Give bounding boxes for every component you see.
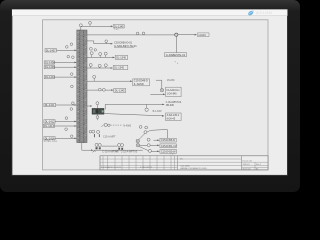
wire W1 <box>81 25 112 27</box>
arrow wire B <box>162 115 165 117</box>
label box R2 two-line <box>166 113 182 121</box>
svg-text:BERSE C15 MBS/C15 1345: BERSE C15 MBS/C15 1345 <box>181 168 208 170</box>
wire L4 <box>55 76 76 78</box>
diagonal wire down <box>139 147 158 152</box>
busbar bottom drop wire <box>82 143 92 151</box>
wire L5 <box>56 104 75 106</box>
svg-text:B-1-DAT: B-1-DAT <box>153 110 163 113</box>
svg-text:Sheet 1/2: Sheet 1/2 <box>243 167 251 170</box>
arrow W2 <box>195 34 197 36</box>
wire busbar to K1 <box>87 105 91 107</box>
left label L7 <box>43 124 54 128</box>
title block small texts <box>101 158 261 171</box>
balloon a on W2 <box>136 32 139 35</box>
cluster junction X3 <box>136 144 139 147</box>
drop wire from node J1 <box>175 36 177 52</box>
wire W4 <box>87 56 113 58</box>
svg-text:DL-1411: DL-1411 <box>45 103 55 107</box>
wire W2 continuation <box>178 34 196 36</box>
arrow L4 <box>74 76 76 78</box>
wire L1 <box>57 49 76 51</box>
balloons on W5 <box>89 64 107 69</box>
title block <box>100 156 268 170</box>
svg-text:JB-DD: JB-DD <box>166 104 174 107</box>
net label box W5 <box>113 65 128 69</box>
wire A from relay <box>105 104 163 109</box>
svg-text:IL-SAND: IL-SAND <box>134 83 144 86</box>
wire L3 <box>55 66 75 68</box>
svg-text:C15-D451-I-D: C15-D451-I-D <box>161 145 177 148</box>
svg-text:DL-1345: DL-1345 <box>114 66 124 70</box>
wire L6 <box>55 120 75 122</box>
arrow M1 <box>157 139 159 141</box>
arrow W3 <box>111 43 113 45</box>
svg-text:1345-LS: 1345-LS <box>243 164 251 166</box>
mid circle on wire M2 <box>147 144 150 147</box>
tablet bezel <box>0 0 300 192</box>
node J1 <box>175 33 178 36</box>
terminal circle T1 <box>90 47 93 50</box>
arrow W4 <box>113 57 115 59</box>
svg-text:1N-DM: 1N-DM <box>167 79 175 82</box>
svg-text:DL-1407: DL-1407 <box>46 48 56 52</box>
svg-text:A3: A3 <box>256 167 258 170</box>
svg-text:DL-1345: DL-1345 <box>116 56 126 60</box>
wire L8 <box>55 137 75 139</box>
isolator symbol dashed <box>101 123 122 127</box>
left label L6 <box>44 120 55 124</box>
label box M3 <box>160 150 177 154</box>
relay K1 balloon <box>96 102 99 109</box>
dots below G box <box>175 61 176 62</box>
arrow bottom wire <box>91 149 93 151</box>
terminal circle T2 <box>94 49 96 51</box>
wire L7 <box>55 125 76 127</box>
balloons on W4 <box>90 52 107 58</box>
arrow W5 <box>111 67 113 69</box>
left label L4 <box>44 75 55 79</box>
balloon on W3 <box>105 40 108 44</box>
svg-text:9.1.ALGMTV5: 9.1.ALGMTV5 <box>140 166 152 169</box>
screen panel <box>12 9 287 175</box>
wire B from relay <box>104 114 163 116</box>
fuse blocks P1 <box>96 147 101 149</box>
label box W6 two-line <box>133 79 150 86</box>
app toolbar strip <box>12 9 287 15</box>
arrow M3 <box>157 151 159 153</box>
stub wire into box R1 <box>150 93 163 95</box>
mid circle on wire M1 <box>147 138 150 141</box>
wire number balloon on W1 <box>89 21 92 26</box>
pair circles P2 <box>118 143 124 146</box>
svg-text:DL-1412: DL-1412 <box>45 120 55 124</box>
arrow L5 <box>74 104 76 106</box>
wire L2 <box>55 61 76 63</box>
svg-text:Docum. No: Docum. No <box>243 160 252 162</box>
left label L1 <box>45 48 57 52</box>
vertical wire to crossing circle <box>161 80 163 88</box>
arrow L8 <box>74 138 76 140</box>
arrow into R1 <box>163 94 165 96</box>
arrow L6 <box>74 121 76 123</box>
left label L8 <box>44 136 55 140</box>
crossing circle X1 <box>160 89 163 92</box>
label box M1 <box>160 138 176 142</box>
bottom bus wire <box>93 149 142 151</box>
fuse ticks row1 <box>94 134 100 137</box>
balloon on W6 <box>93 75 96 81</box>
wire W7 <box>87 89 112 91</box>
svg-text:DL-1408: DL-1408 <box>45 61 55 65</box>
wire to box M2 <box>140 144 158 146</box>
mid circle on wire M3 <box>148 149 151 152</box>
arrow L1 <box>74 50 76 52</box>
balloon on diagonal <box>144 131 147 134</box>
label box R1 two-line <box>166 87 182 96</box>
relay K1 body <box>92 108 104 114</box>
left label L3 <box>44 65 55 69</box>
stem to busbar top <box>80 27 82 30</box>
device box G-DABESTE <box>165 53 187 57</box>
tick before text P1 <box>93 151 96 153</box>
svg-text:DL-1345: DL-1345 <box>115 89 125 93</box>
wire W2 <box>87 34 175 36</box>
cluster top balloon b <box>145 126 148 129</box>
stub segment right of W6 box <box>156 79 162 81</box>
busbar top terminal circle <box>79 24 82 27</box>
svg-text:1-DA-845: 1-DA-845 <box>167 93 178 96</box>
net label DL-1345 (W1) <box>113 25 124 29</box>
net label box W4 <box>115 56 128 60</box>
tick before text P2 <box>115 151 118 153</box>
svg-text:DL-1414: DL-1414 <box>45 136 55 140</box>
left label L5 <box>44 103 56 107</box>
left label L2 <box>44 61 55 65</box>
wire W5 <box>87 67 111 69</box>
balloon b on W2 <box>142 32 145 35</box>
arrow W1 <box>111 26 113 28</box>
drawing sheet frame <box>43 20 269 170</box>
svg-text:8-DA-45: 8-DA-45 <box>167 117 176 120</box>
svg-text:4 HOLMATRO 05.02.21: 4 HOLMATRO 05.02.21 <box>101 166 121 169</box>
terminal strip busbar X1 <box>77 30 87 143</box>
wire W3 <box>87 41 111 44</box>
net label box W7 <box>114 88 126 92</box>
svg-text:Rev 2: Rev 2 <box>256 164 261 166</box>
arrow W7 <box>111 89 113 91</box>
underline W3 <box>114 46 134 48</box>
arrow L7 <box>74 125 76 127</box>
arrow W6 <box>130 80 132 82</box>
svg-text:C15-A-MPT: C15-A-MPT <box>103 135 116 138</box>
svg-text:G-DABESTE-01: G-DABESTE-01 <box>166 53 186 57</box>
cluster junction X2 <box>136 139 139 142</box>
svg-text:DL-1345: DL-1345 <box>114 25 124 28</box>
wire W6 long <box>87 80 131 82</box>
svg-text:AXIOM: AXIOM <box>256 10 273 15</box>
label box M2 <box>160 144 177 148</box>
cluster top balloon a <box>139 126 142 129</box>
svg-text:DL-1413: DL-1413 <box>44 124 54 128</box>
svg-text:N-4060: N-4060 <box>123 124 132 127</box>
arrow wire A <box>162 104 164 106</box>
fuse blocks P2 <box>118 148 123 150</box>
left terminal circles <box>65 43 74 138</box>
balloon on wire A <box>145 104 148 111</box>
svg-text:C15-D430-W: C15-D430-W <box>161 151 176 154</box>
svg-text:C-15-A-MPTV5: C-15-A-MPTV5 <box>121 150 138 153</box>
svg-text:DL-1409: DL-1409 <box>45 65 55 69</box>
wire into box M1 <box>154 139 158 141</box>
arrow L3 <box>74 66 76 68</box>
terminal trio row1 <box>89 130 100 133</box>
diagonal wire up <box>139 130 168 140</box>
terminal below K1 <box>96 114 99 120</box>
svg-text:1-DAC: 1-DAC <box>198 33 206 37</box>
svg-text:DL-1410: DL-1410 <box>45 75 55 79</box>
arrow L2 <box>74 62 76 64</box>
balloons on W7 <box>98 88 105 91</box>
pair circles P1 <box>95 143 101 146</box>
net label 1-DAC (W2) <box>197 33 209 37</box>
arrow M2 <box>157 145 159 147</box>
wire between pairs <box>101 145 117 147</box>
logo icon <box>248 11 253 16</box>
svg-text:C15-D456-D: C15-D456-D <box>161 139 175 142</box>
svg-text:KA-SAR-04-1: KA-SAR-04-1 <box>167 89 181 92</box>
